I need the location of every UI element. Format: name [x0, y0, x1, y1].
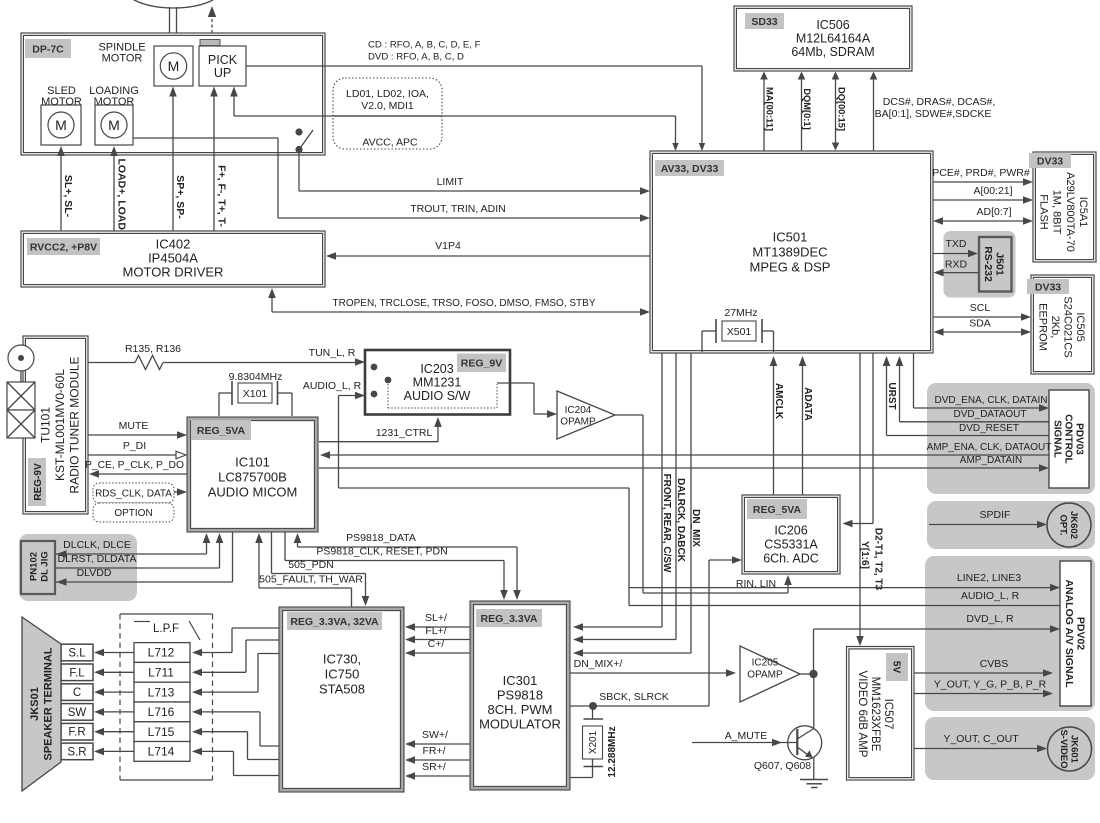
svg-text:PS9818_DATA: PS9818_DATA: [346, 532, 416, 544]
wire A_MUTE: [692, 742, 797, 744]
inductor block L716: [134, 702, 190, 722]
wire L713 to C: [102, 691, 134, 693]
wire TROPEN, TRCLOSE, TRSO, FOSO, DMSO, FMSO, STBY: [271, 294, 273, 312]
svg-text:L716: L716: [148, 705, 175, 719]
svg-text:LINE2, LINE3: LINE2, LINE3: [957, 572, 1021, 584]
svg-text:L715: L715: [148, 725, 175, 739]
svg-text:TU101: TU101: [39, 407, 53, 443]
wire C+/: [412, 652, 470, 654]
svg-text:Q607, Q608: Q607, Q608: [754, 760, 811, 772]
speaker terminal JKS01: [22, 617, 61, 791]
connector PDV03 control signal: [927, 383, 1095, 494]
svg-text:Y_OUT, Y_G, P_B, P_R: Y_OUT, Y_G, P_B, P_R: [934, 679, 1047, 691]
connector JK602 OPT (SPDIF): [927, 501, 1095, 549]
wire FL+/: [412, 639, 470, 641]
net AUDIO_L,R / LINE2,LINE3 to rear connector: [338, 396, 340, 489]
svg-text:IC730,: IC730,: [323, 652, 361, 667]
svg-text:L713: L713: [148, 685, 175, 699]
svg-text:8CH. PWM: 8CH. PWM: [488, 702, 553, 717]
svg-text:ANALOG A/V SIGNAL: ANALOG A/V SIGNAL: [1063, 579, 1075, 688]
wire FR+/: [412, 759, 470, 761]
svg-text:OPAMP: OPAMP: [560, 417, 596, 428]
svg-text:PDV02: PDV02: [1075, 617, 1087, 650]
svg-text:Y[1:6]: Y[1:6]: [859, 541, 870, 569]
block IC505 EEPROM: [1031, 275, 1094, 374]
speaker terminal box S.L: [61, 644, 93, 661]
svg-text:SW+/: SW+/: [422, 729, 448, 741]
spindle motor M: [154, 46, 193, 86]
sled motor M: [41, 105, 81, 145]
svg-text:SR+/: SR+/: [422, 761, 446, 773]
svg-text:C+/: C+/: [428, 638, 445, 650]
svg-text:PN102: PN102: [28, 552, 39, 581]
re-draw LD wire across callout: [334, 115, 442, 117]
svg-text:MM1623XFBE: MM1623XFBE: [869, 677, 881, 752]
ground: [800, 779, 828, 781]
svg-text:AVCC, APC: AVCC, APC: [362, 137, 418, 149]
speaker terminal box S.R: [61, 743, 93, 760]
svg-text:DVD_DATAOUT: DVD_DATAOUT: [954, 409, 1027, 420]
wire DN_MIX+/ (IC301 to IC205): [570, 672, 729, 674]
wire FRONT, REAR, C/SW (IC501 to IC301): [661, 353, 663, 627]
svg-text:SL+, SL-: SL+, SL-: [62, 175, 74, 218]
svg-text:LC875700B: LC875700B: [218, 470, 287, 485]
svg-text:V2.0, MDI1: V2.0, MDI1: [361, 100, 414, 112]
disc platter (ellipse, cut at top): [125, 0, 223, 8]
wire AUDIO_L, R into IC203: [339, 395, 359, 397]
svg-text:J501: J501: [994, 252, 1006, 276]
svg-text:S24C021CS: S24C021CS: [1061, 296, 1073, 357]
wire SW+/: [412, 743, 470, 745]
resistor R135, R136: [88, 362, 135, 364]
svg-text:SPEAKER TERMINAL: SPEAKER TERMINAL: [43, 647, 55, 760]
svg-text:DV33: DV33: [1035, 281, 1061, 293]
block IC506 SDRAM: [734, 6, 912, 71]
svg-text:F+, F-, T+, T-: F+, F-, T+, T-: [215, 165, 227, 227]
svg-text:A_MUTE: A_MUTE: [725, 730, 768, 742]
svg-text:IP4504A: IP4504A: [148, 251, 198, 266]
svg-text:9.8304MHz: 9.8304MHz: [229, 371, 283, 383]
svg-text:M: M: [108, 117, 120, 133]
wire PS9818_CLK, RESET, PDN: [284, 532, 286, 561]
svg-text:AUDIO MICOM: AUDIO MICOM: [208, 485, 298, 500]
block IC402 motor driver: [21, 231, 325, 287]
svg-text:TUN_L, R: TUN_L, R: [309, 347, 356, 359]
svg-text:VIDEO 6dB AMP: VIDEO 6dB AMP: [856, 671, 868, 758]
svg-text:IC506: IC506: [816, 18, 849, 32]
svg-text:D2-T1, T2, T3: D2-T1, T2, T3: [873, 528, 884, 591]
wire RDS option to IC101: [174, 491, 180, 493]
wire LIMIT (switch to IC501): [298, 153, 300, 191]
svg-text:Y_OUT, C_OUT: Y_OUT, C_OUT: [943, 733, 1019, 745]
svg-text:S-VIDEO: S-VIDEO: [1058, 729, 1069, 768]
wire AMP_ENA, CLK, DATAOUT (to IC101): [327, 454, 1049, 456]
svg-text:L.P.F: L.P.F: [153, 623, 179, 635]
wire SR+/: [412, 775, 470, 777]
svg-text:MPEG & DSP: MPEG & DSP: [750, 260, 831, 275]
svg-text:DN_MIX+/: DN_MIX+/: [574, 658, 623, 670]
wire Y_OUT, C_OUT: [914, 748, 1040, 750]
svg-text:SP+, SP-: SP+, SP-: [174, 175, 186, 219]
crystal X201 12.288MHz: [592, 706, 594, 719]
wire SP+, SP- (spindle motor to IC402): [172, 93, 174, 231]
svg-text:TXD: TXD: [946, 238, 967, 250]
svg-text:LIMIT: LIMIT: [437, 176, 464, 188]
svg-text:AMP_DATAIN: AMP_DATAIN: [960, 455, 1022, 466]
wire AMCLK (IC206 to IC501): [773, 364, 775, 495]
svg-text:MOTOR DRIVER: MOTOR DRIVER: [123, 265, 224, 280]
svg-text:MOTOR: MOTOR: [102, 52, 143, 64]
svg-text:IC205: IC205: [752, 658, 779, 669]
block TU101 radio tuner module: [23, 336, 88, 514]
svg-text:REG_3.3VA, 32VA: REG_3.3VA, 32VA: [290, 616, 379, 628]
dashed arrow above pick up: [211, 17, 213, 33]
wire F+, F-, T+, T- (pick up to IC402): [213, 93, 215, 231]
wire LINE2, LINE3: [629, 587, 1053, 589]
svg-text:M: M: [168, 58, 180, 74]
spindle shaft: [169, 7, 171, 46]
svg-text:DALRCK, DABCK: DALRCK, DABCK: [675, 478, 686, 563]
svg-text:5V: 5V: [891, 661, 902, 674]
svg-text:AMCLK: AMCLK: [773, 383, 784, 420]
svg-text:M12L64164A: M12L64164A: [796, 31, 871, 45]
svg-text:PS9818_CLK, RESET, PDN: PS9818_CLK, RESET, PDN: [316, 546, 447, 558]
inductor block L711: [134, 662, 190, 682]
svg-text:2Kb,: 2Kb,: [1049, 316, 1061, 339]
wire 505_FAULT, TH_WAR: [258, 540, 260, 588]
svg-text:DV33: DV33: [1037, 155, 1063, 167]
wire IC203 output to IC204: [497, 382, 534, 384]
wire SL+/ (IC301 to IC730): [412, 626, 470, 628]
svg-text:PS9818: PS9818: [497, 687, 543, 702]
wire IC204 output / RIN, LIN to IC206: [615, 414, 643, 416]
svg-text:SDA: SDA: [969, 318, 991, 330]
svg-text:SIGNAL: SIGNAL: [1052, 420, 1063, 458]
svg-text:REG_5VA: REG_5VA: [197, 425, 246, 437]
enclosure box DP-7C: [21, 33, 325, 155]
svg-text:DLVDD: DLVDD: [77, 567, 112, 579]
op-amp IC205: [740, 646, 800, 702]
wire L715 to F.R: [102, 731, 134, 733]
wire SBCK, SLRCK (IC301 to IC206): [570, 705, 709, 707]
svg-text:F.L: F.L: [69, 667, 85, 679]
svg-text:URST: URST: [886, 382, 897, 409]
block IC501 MPEG & DSP: [650, 151, 933, 353]
svg-text:IC204: IC204: [565, 405, 592, 416]
switch contacts inside IC203: [371, 364, 378, 371]
bus DCS#, DRAS#, DCAS#, BA[0:1], SDWE#, SDCKE: [873, 78, 875, 151]
svg-text:IC507: IC507: [882, 699, 894, 730]
wire IC730 to L713: [200, 691, 258, 693]
svg-text:FR+/: FR+/: [422, 745, 445, 757]
speaker terminal box F.L: [61, 664, 93, 681]
connector PDV02 analog A/V signal: [925, 556, 1095, 711]
wire IC730 to L711: [200, 671, 246, 673]
wire TUN_L, R (to IC203): [163, 362, 358, 364]
wire A[00:21]: [933, 199, 1026, 201]
wire P_DI (open arrow): [88, 454, 178, 456]
wire 1231_CTRL: [319, 441, 438, 443]
speaker terminal box F.R: [61, 723, 93, 740]
label DP-7C: [25, 39, 71, 58]
svg-text:IC206: IC206: [774, 523, 807, 537]
svg-text:1231_CTRL: 1231_CTRL: [376, 427, 433, 439]
wire Y[1:6] (IC501 to IC507): [859, 353, 861, 639]
block IC301 PWM modulator: [470, 601, 570, 790]
wire DLCLK, DLCE: [56, 553, 207, 555]
wire URST / DVD_RESET: [886, 364, 888, 436]
svg-text:SBCK, SLRCK: SBCK, SLRCK: [599, 691, 668, 703]
svg-text:L712: L712: [148, 646, 175, 660]
svg-text:DLRST, DLDATA: DLRST, DLDATA: [58, 553, 137, 565]
svg-text:DVD_L, R: DVD_L, R: [966, 613, 1014, 625]
wire L711 to F.L: [102, 671, 134, 673]
svg-text:CD : RFO, A, B, C, D, E, F: CD : RFO, A, B, C, D, E, F: [368, 40, 481, 51]
svg-text:IC501: IC501: [773, 230, 808, 245]
svg-text:IC101: IC101: [235, 455, 270, 470]
svg-text:CS5331A: CS5331A: [764, 537, 818, 551]
svg-text:S.R: S.R: [67, 746, 86, 758]
svg-text:DQ[00:15]: DQ[00:15]: [837, 87, 847, 131]
svg-text:AUDIO_L, R: AUDIO_L, R: [961, 590, 1020, 602]
svg-text:REG-9V: REG-9V: [33, 463, 44, 501]
svg-text:LOAD+, LOAD-: LOAD+, LOAD-: [115, 159, 127, 234]
connector JK601 S-VIDEO: [925, 717, 1095, 780]
svg-text:A29LV800TA-70: A29LV800TA-70: [1064, 172, 1076, 252]
svg-text:OPT.: OPT.: [1057, 514, 1068, 535]
wire DVD_DATAOUT: [899, 364, 901, 422]
svg-text:C: C: [73, 687, 81, 699]
connector PN102 DL JIG: [19, 534, 137, 601]
svg-text:JK601: JK601: [1068, 735, 1079, 764]
block IC101 audio micom: [187, 417, 318, 532]
label REG-9V: [28, 458, 46, 506]
svg-text:X201: X201: [588, 730, 599, 754]
wire SL+, SL- (sled motor to IC402): [60, 153, 62, 232]
option callout RDS_CLK, DATA / OPTION: [93, 483, 174, 503]
svg-text:JKS01: JKS01: [29, 687, 41, 721]
inductor block L714: [134, 742, 190, 762]
wire L712 to S.L: [102, 652, 134, 654]
svg-text:P_DI: P_DI: [123, 440, 146, 452]
svg-text:SW: SW: [68, 707, 87, 719]
svg-text:RS-232: RS-232: [982, 246, 994, 282]
wire SPDIF: [929, 524, 1040, 526]
wire RXD: [941, 272, 979, 274]
svg-text:6Ch. ADC: 6Ch. ADC: [763, 551, 819, 565]
svg-text:S.L: S.L: [68, 648, 86, 660]
wire AD[0:7] (bidirectional): [941, 220, 1026, 222]
svg-text:X101: X101: [243, 388, 268, 400]
svg-text:RADIO TUNER MODULE: RADIO TUNER MODULE: [68, 356, 82, 493]
svg-text:IC203: IC203: [420, 362, 453, 376]
svg-text:TROUT, TRIN, ADIN: TROUT, TRIN, ADIN: [410, 203, 505, 215]
svg-text:505_FAULT, TH_WAR: 505_FAULT, TH_WAR: [259, 574, 363, 586]
svg-text:DN_MIX: DN_MIX: [690, 509, 701, 547]
svg-text:AUDIO S/W: AUDIO S/W: [404, 389, 471, 403]
inductor block L715: [134, 722, 190, 742]
svg-text:DVD_ENA, CLK, DATAIN: DVD_ENA, CLK, DATAIN: [935, 395, 1048, 406]
block IC507 video amp: [847, 647, 915, 781]
speaker terminal box SW: [61, 704, 93, 721]
svg-text:FLASH: FLASH: [1037, 194, 1049, 230]
svg-text:L714: L714: [148, 745, 175, 759]
wire AMP_DATAIN: [319, 467, 1042, 469]
svg-text:RXD: RXD: [945, 259, 968, 271]
svg-text:P_CE, P_CLK, P_DO: P_CE, P_CLK, P_DO: [85, 460, 184, 471]
pick up unit: [199, 46, 246, 86]
svg-text:DL JIG: DL JIG: [39, 551, 50, 581]
wire PCE#, PRD#, PWR#: [933, 181, 1026, 183]
svg-text:MODULATOR: MODULATOR: [479, 716, 561, 731]
block IC203 audio switch: [365, 350, 510, 415]
svg-text:V1P4: V1P4: [435, 240, 461, 252]
wire L714 to S.R: [102, 750, 134, 752]
svg-text:MUTE: MUTE: [119, 420, 149, 432]
wire DLVDD: [56, 581, 233, 583]
wire TXD: [933, 253, 971, 255]
wire L716 to SW: [102, 711, 134, 713]
svg-text:REG_9V: REG_9V: [461, 358, 502, 370]
svg-text:DCS#, DRAS#, DCAS#,: DCS#, DRAS#, DCAS#,: [883, 96, 996, 108]
svg-text:M: M: [55, 117, 67, 133]
wire DALRCK, DABCK: [675, 353, 677, 640]
svg-text:AUDIO_L, R: AUDIO_L, R: [303, 380, 362, 392]
svg-text:27MHz: 27MHz: [724, 307, 757, 319]
pick up lens (gray tab): [200, 40, 220, 46]
svg-text:EEPROM: EEPROM: [1036, 303, 1048, 351]
wire IC730 to L715: [200, 731, 248, 733]
svg-text:OPTION: OPTION: [114, 508, 152, 519]
wire DLRST, DLDATA: [56, 567, 220, 569]
svg-text:FL+/: FL+/: [425, 625, 446, 637]
svg-text:SD33: SD33: [751, 16, 777, 28]
svg-text:505_PDN: 505_PDN: [288, 559, 334, 571]
svg-text:PDV03: PDV03: [1074, 423, 1085, 455]
transistor Q607, Q608 video mute: [813, 674, 815, 729]
svg-text:KST-ML001MV0-60L: KST-ML001MV0-60L: [53, 369, 67, 481]
loading motor M: [95, 105, 133, 145]
block IC730/IC750 STA508 power amp: [279, 607, 404, 792]
mechanism assembly DP-7C (deck): [21, 0, 325, 155]
svg-text:AMP_ENA, CLK, DATAOUT: AMP_ENA, CLK, DATAOUT: [927, 442, 1052, 453]
wire RFO signals from pick up to IC501: [246, 65, 702, 67]
svg-text:LD01, LD02, IOA,: LD01, LD02, IOA,: [346, 88, 429, 100]
speaker terminal box C: [61, 684, 93, 701]
svg-text:RVCC2, +P8V: RVCC2, +P8V: [30, 241, 97, 253]
svg-text:DVD_RESET: DVD_RESET: [959, 423, 1019, 434]
wire IC730 to L716: [200, 711, 260, 713]
svg-text:AV33, DV33: AV33, DV33: [661, 163, 719, 175]
svg-text:MA[00:11]: MA[00:11]: [765, 87, 775, 131]
svg-text:F.R: F.R: [68, 727, 85, 739]
inductor block L712: [134, 643, 190, 663]
svg-text:IC5A1: IC5A1: [1077, 197, 1089, 228]
svg-text:UP: UP: [214, 66, 231, 80]
wire IC730 to L714: [200, 750, 234, 752]
svg-text:12.288MHz: 12.288MHz: [607, 726, 618, 777]
svg-text:ADATA: ADATA: [802, 387, 813, 421]
wire LOAD+, LOAD- (loading motor to IC402): [113, 153, 115, 232]
bus MA[00:11]: [763, 78, 765, 151]
svg-text:STA508: STA508: [319, 682, 365, 697]
svg-text:A[00:21]: A[00:21]: [973, 185, 1012, 197]
svg-text:MM1231: MM1231: [413, 375, 462, 389]
svg-text:REG_5VA: REG_5VA: [753, 504, 802, 516]
svg-text:1M, 8BIT: 1M, 8BIT: [1051, 190, 1063, 235]
svg-text:MT1389DEC: MT1389DEC: [752, 245, 827, 260]
bus DQM[0:1]: [801, 78, 803, 151]
svg-text:REG_3.3VA: REG_3.3VA: [481, 613, 538, 625]
wire AUDIO_L, R (to connector): [629, 605, 1060, 607]
svg-text:PICK: PICK: [208, 53, 238, 67]
wire ADATA: [802, 364, 804, 495]
svg-text:PCE#, PRD#, PWR#: PCE#, PRD#, PWR#: [932, 167, 1030, 179]
inductor block L713: [134, 682, 190, 702]
wire DVD_ENA, CLK, DATAIN: [913, 353, 915, 408]
wire LD01/AVCC from pick up to IC501: [233, 93, 235, 116]
svg-text:JK602: JK602: [1068, 511, 1079, 539]
low pass filter dashed box L.P.F: [120, 613, 213, 615]
svg-text:X501: X501: [727, 326, 752, 338]
wire MUTE: [88, 434, 180, 436]
svg-text:OPAMP: OPAMP: [747, 670, 783, 681]
svg-text:DQM[0:1]: DQM[0:1]: [802, 88, 812, 129]
wire Y_OUT, Y_G, P_B, P_R: [914, 693, 1046, 695]
svg-text:CONTROL: CONTROL: [1063, 414, 1074, 463]
svg-text:SPDIF: SPDIF: [980, 509, 1011, 521]
block IC5A1 flash: [1033, 152, 1096, 262]
svg-text:DLCLK, DLCE: DLCLK, DLCE: [63, 539, 131, 551]
wire PS9818_DATA: [297, 540, 299, 547]
svg-text:FRONT, REAR, C/SW: FRONT, REAR, C/SW: [661, 474, 672, 573]
wire TROUT, TRIN, ADIN: [133, 137, 278, 139]
antenna symbol: [8, 345, 34, 371]
svg-text:BA[0:1], SDWE#,SDCKE: BA[0:1], SDWE#,SDCKE: [875, 108, 992, 120]
svg-text:L711: L711: [148, 666, 174, 680]
svg-text:TROPEN, TRCLOSE, TRSO, FOSO, D: TROPEN, TRCLOSE, TRSO, FOSO, DMSO, FMSO,…: [333, 298, 596, 309]
wire P_CE, P_CLK, P_DO: [96, 473, 187, 475]
svg-text:IC402: IC402: [156, 237, 191, 252]
svg-text:SCL: SCL: [970, 302, 991, 314]
wire SCL: [933, 316, 1024, 318]
svg-text:IC750: IC750: [325, 667, 360, 682]
svg-text:RDS_CLK, DATA: RDS_CLK, DATA: [95, 489, 172, 500]
wire IC205 output junction: [800, 673, 814, 675]
wire CVBS: [914, 672, 1046, 674]
wire IC730 to L712: [200, 652, 232, 654]
svg-text:DVD : RFO, A, B, C, D: DVD : RFO, A, B, C, D: [368, 52, 464, 63]
svg-text:64Mb, SDRAM: 64Mb, SDRAM: [791, 45, 874, 59]
svg-text:CVBS: CVBS: [980, 658, 1009, 670]
op-amp IC204: [557, 391, 615, 439]
wire D2-T1, T2, T3 (IC501 to IC206): [872, 353, 874, 524]
limit switch contacts: [295, 128, 302, 135]
wire DVD_L, R: [813, 629, 815, 674]
wire SDA (bidirectional): [941, 331, 1024, 333]
callout box LD01, LD02, IOA, V2.0, MDI1 / AVCC, APC: [333, 78, 442, 149]
svg-text:SL+/: SL+/: [425, 612, 447, 624]
block IC206 6ch ADC: [742, 495, 840, 574]
svg-text:AD[0:7]: AD[0:7]: [976, 206, 1011, 218]
wire V1P4 (IC501 to IC402): [334, 255, 650, 257]
svg-text:IC505: IC505: [1074, 312, 1086, 341]
svg-text:DP-7C: DP-7C: [32, 43, 64, 55]
wire DN_MIX: [690, 353, 692, 653]
svg-text:R135, R136: R135, R136: [125, 343, 181, 355]
svg-text:IC301: IC301: [503, 673, 538, 688]
bus DQ[00:15] (bidirectional): [835, 78, 837, 144]
